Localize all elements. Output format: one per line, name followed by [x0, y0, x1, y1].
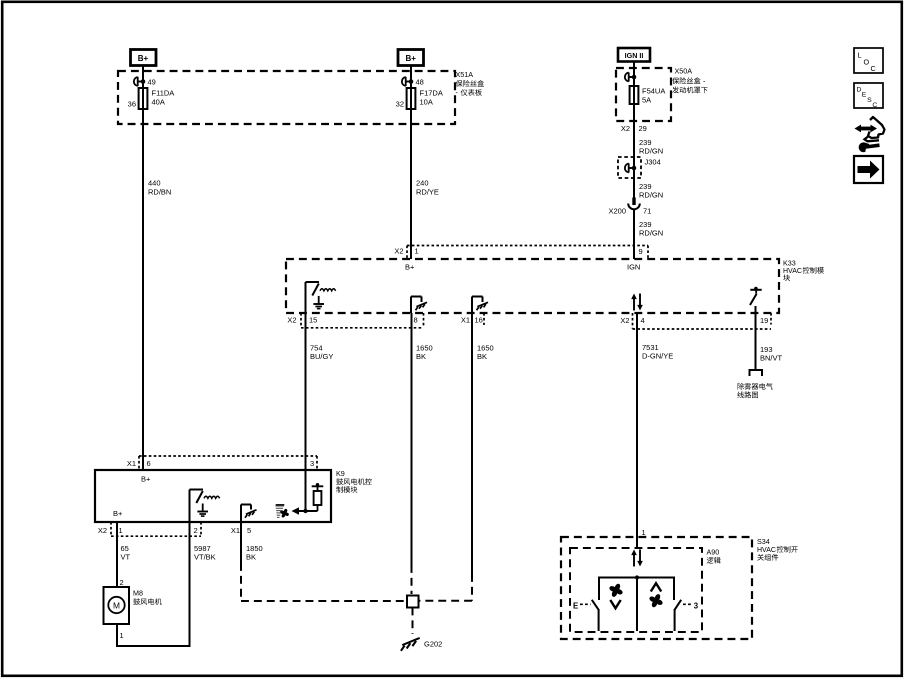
svg-text:32: 32	[396, 100, 404, 109]
svg-text:36: 36	[128, 100, 136, 109]
drive arrow to fan	[299, 510, 318, 512]
svg-text:1: 1	[120, 631, 124, 640]
fan symbol	[280, 508, 290, 518]
svg-text:X1: X1	[461, 316, 470, 325]
svg-text:B+: B+	[405, 263, 415, 272]
svg-text:1: 1	[119, 526, 123, 535]
svg-text:2: 2	[120, 578, 124, 587]
svg-text:J304: J304	[645, 158, 661, 167]
svg-text:BK: BK	[477, 352, 487, 361]
node junction dot	[635, 575, 639, 579]
svg-text:D-GN/YE: D-GN/YE	[642, 352, 673, 361]
in-line connector X200 pin 71	[632, 198, 635, 206]
wire K33 pin 16 ground (circuit 1650 BK)	[471, 313, 473, 574]
svg-text:X2: X2	[620, 316, 629, 325]
svg-text:F17DA: F17DA	[420, 89, 443, 98]
wire from B+ through fuse F17DA down to K33 pin X2-1 (circuit 240 RD/YE)	[410, 66, 412, 260]
wire K33 pin 15 to K9 pin 3 (circuit 754 BU/GY)	[305, 313, 307, 470]
fuse F11DA 40A	[139, 88, 148, 109]
wire K9 pin 5 ground (circuit 1850 BK)	[240, 522, 242, 563]
terminal clip F54UA	[625, 73, 629, 82]
wire K33 pin 8 ground (circuit 1650 BK)	[411, 313, 413, 565]
K33 bottom connector bracket X2 (pins 15,8)	[300, 313, 302, 328]
K9 top connector bracket X1	[139, 455, 317, 457]
fuse box X51A dashed outline	[118, 71, 455, 124]
svg-text:BN/VT: BN/VT	[760, 354, 783, 363]
svg-text:X51A: X51A	[456, 70, 474, 79]
svg-text:10A: 10A	[420, 98, 433, 107]
B+ battery feed symbol 2	[398, 50, 424, 66]
decrease chevron	[610, 600, 620, 608]
svg-text:X2: X2	[98, 526, 107, 535]
svg-text:IGN II: IGN II	[625, 51, 644, 60]
ground G202	[401, 638, 420, 651]
A90 logic block dashed box	[570, 548, 702, 632]
K33 bottom connector bracket X2 (pins 4,19)	[632, 313, 634, 329]
svg-text:3: 3	[310, 459, 314, 468]
K9 internal ground at pin 5	[240, 505, 242, 523]
K33 internal ground at pin 16	[471, 297, 473, 314]
svg-text:E: E	[862, 92, 867, 99]
svg-text:B+: B+	[141, 475, 151, 484]
svg-text:71: 71	[643, 207, 651, 216]
svg-text:B+: B+	[138, 54, 149, 63]
increase chevron	[651, 583, 661, 591]
wire from IGN II through fuse F54UA to X200 (circuit 239 RD/GN)	[633, 62, 635, 199]
svg-text:M8: M8	[133, 589, 143, 598]
svg-text:49: 49	[148, 78, 156, 87]
off-page reference to defogger schematic	[750, 370, 763, 376]
svg-text:HVAC: HVAC	[757, 547, 776, 554]
right mechanical link 3	[683, 603, 693, 605]
svg-text:F11DA: F11DA	[152, 89, 175, 98]
right fan symbol	[649, 593, 664, 608]
svg-text:O: O	[864, 58, 870, 67]
svg-text:IGN: IGN	[627, 263, 640, 272]
junction dot	[303, 509, 307, 513]
K33 internal switch at pin 19	[755, 306, 757, 313]
svg-text:C: C	[872, 102, 877, 109]
fuse F17DA 10A	[407, 88, 416, 109]
wire K33 pin 4 to S34 pin 1 (circuit 7531 D-GN/YE)	[636, 313, 638, 548]
svg-text:4: 4	[641, 316, 645, 325]
svg-text:RD/YE: RD/YE	[416, 188, 439, 197]
svg-text:3: 3	[694, 602, 699, 611]
svg-text:X1: X1	[127, 459, 136, 468]
left fan symbol	[609, 583, 624, 598]
svg-text:440: 440	[148, 179, 161, 188]
svg-text:6: 6	[147, 459, 151, 468]
wire motor pin 1 return path	[116, 624, 118, 646]
fuse F54UA 5A	[630, 86, 639, 104]
IGN II ignition feed symbol	[618, 48, 650, 62]
legend icon DESC	[854, 83, 883, 108]
svg-text:1: 1	[642, 528, 646, 537]
variable resistor with top contact	[312, 485, 324, 487]
svg-text:BK: BK	[416, 352, 426, 361]
B+ battery feed symbol 1	[131, 50, 157, 66]
A90 serial data arrows	[633, 554, 635, 567]
legend icon LOC	[854, 48, 883, 73]
svg-text:A90: A90	[707, 548, 720, 557]
svg-text:RD/GN: RD/GN	[639, 229, 663, 238]
terminal clip pin 49	[134, 77, 138, 86]
K9 blower motor control module box	[95, 470, 331, 522]
terminal clip pin 48	[402, 77, 406, 86]
K33 internal driver symbol at pin 15	[305, 282, 307, 313]
svg-text:E: E	[573, 602, 578, 611]
dashed wire junction to G202	[412, 608, 414, 635]
svg-text:VT: VT	[121, 553, 131, 562]
svg-text:X2: X2	[621, 124, 630, 133]
svg-text:5: 5	[247, 526, 251, 535]
svg-text:S: S	[867, 97, 872, 104]
K9 bottom connector bracket X2 (pins 1,2)	[110, 522, 112, 536]
svg-text:1: 1	[415, 247, 419, 256]
right switch blade	[675, 600, 682, 610]
variable-signal hatched wedge	[276, 506, 285, 517]
wire from X200 to K33 pin 9	[633, 210, 635, 260]
svg-text:2: 2	[194, 526, 198, 535]
left switch blade	[592, 600, 599, 610]
K33 internal ground at pin 8	[410, 297, 412, 314]
svg-text:C: C	[871, 64, 876, 73]
A90 internal bus wire	[599, 577, 674, 579]
center wire down	[636, 578, 638, 632]
fuse box X50A dashed outline	[616, 68, 671, 121]
K33 HVAC control module dashed box	[286, 259, 779, 313]
wire K9 pin 1 to blower motor (circuit 65 VT)	[116, 522, 118, 587]
svg-text:8: 8	[414, 316, 418, 325]
svg-text:B+: B+	[113, 509, 123, 518]
svg-text:B+: B+	[405, 54, 416, 63]
svg-text:X50A: X50A	[675, 67, 693, 76]
K33 top connector bracket X2	[407, 245, 648, 247]
svg-text:16: 16	[475, 316, 483, 325]
svg-text:X2: X2	[287, 316, 296, 325]
svg-text:15: 15	[309, 316, 317, 325]
svg-text:X2: X2	[394, 247, 403, 256]
legend icon forward arrow	[854, 156, 883, 183]
K33 internal serial-data arrows at pin 4	[633, 298, 635, 311]
svg-text:S34: S34	[757, 537, 770, 546]
svg-text:29: 29	[639, 124, 647, 133]
svg-text:5A: 5A	[642, 96, 651, 105]
svg-text:RD/BN: RD/BN	[148, 188, 171, 197]
S34 HVAC control switch assembly dashed box	[561, 537, 752, 639]
svg-text:M: M	[113, 600, 120, 610]
svg-text:RD/GN: RD/GN	[639, 146, 663, 155]
wire K33 pin 19 off-page (circuit 193 BN/VT)	[755, 313, 757, 370]
svg-text:X1: X1	[231, 526, 240, 535]
svg-text:240: 240	[416, 179, 429, 188]
svg-text:VT/BK: VT/BK	[194, 553, 216, 562]
svg-text:19: 19	[760, 316, 768, 325]
svg-text:G202: G202	[424, 640, 442, 649]
svg-text:X200: X200	[608, 207, 626, 216]
svg-text:K9: K9	[336, 469, 345, 478]
svg-text:RD/GN: RD/GN	[639, 191, 663, 200]
right branch wire	[673, 577, 675, 601]
K9 internal driver symbol at pin 2	[189, 490, 191, 523]
wire from B+ through fuse F11DA down to K9 pin X1-6 (circuit 440 RD/BN)	[142, 66, 144, 471]
wire K9 pin 2 motor return (circuit 5987 VT/BK)	[189, 522, 191, 646]
splice pack J304	[618, 157, 641, 178]
ground splice junction	[407, 596, 419, 608]
svg-text:40A: 40A	[152, 98, 165, 107]
svg-text:D: D	[857, 87, 862, 94]
left branch wire	[598, 577, 600, 601]
svg-text:L: L	[858, 51, 862, 60]
legend service icon: double arrow, outline, wrench	[855, 117, 885, 152]
svg-text:HVAC: HVAC	[783, 268, 802, 275]
svg-text:BK: BK	[246, 553, 256, 562]
svg-text:F54UA: F54UA	[642, 87, 665, 96]
svg-text:48: 48	[416, 78, 424, 87]
svg-text:K33: K33	[783, 259, 796, 268]
svg-text:9: 9	[639, 247, 643, 256]
K9 internal blower driver: wire pin3 into module	[305, 470, 307, 511]
svg-text:BU/GY: BU/GY	[310, 352, 333, 361]
